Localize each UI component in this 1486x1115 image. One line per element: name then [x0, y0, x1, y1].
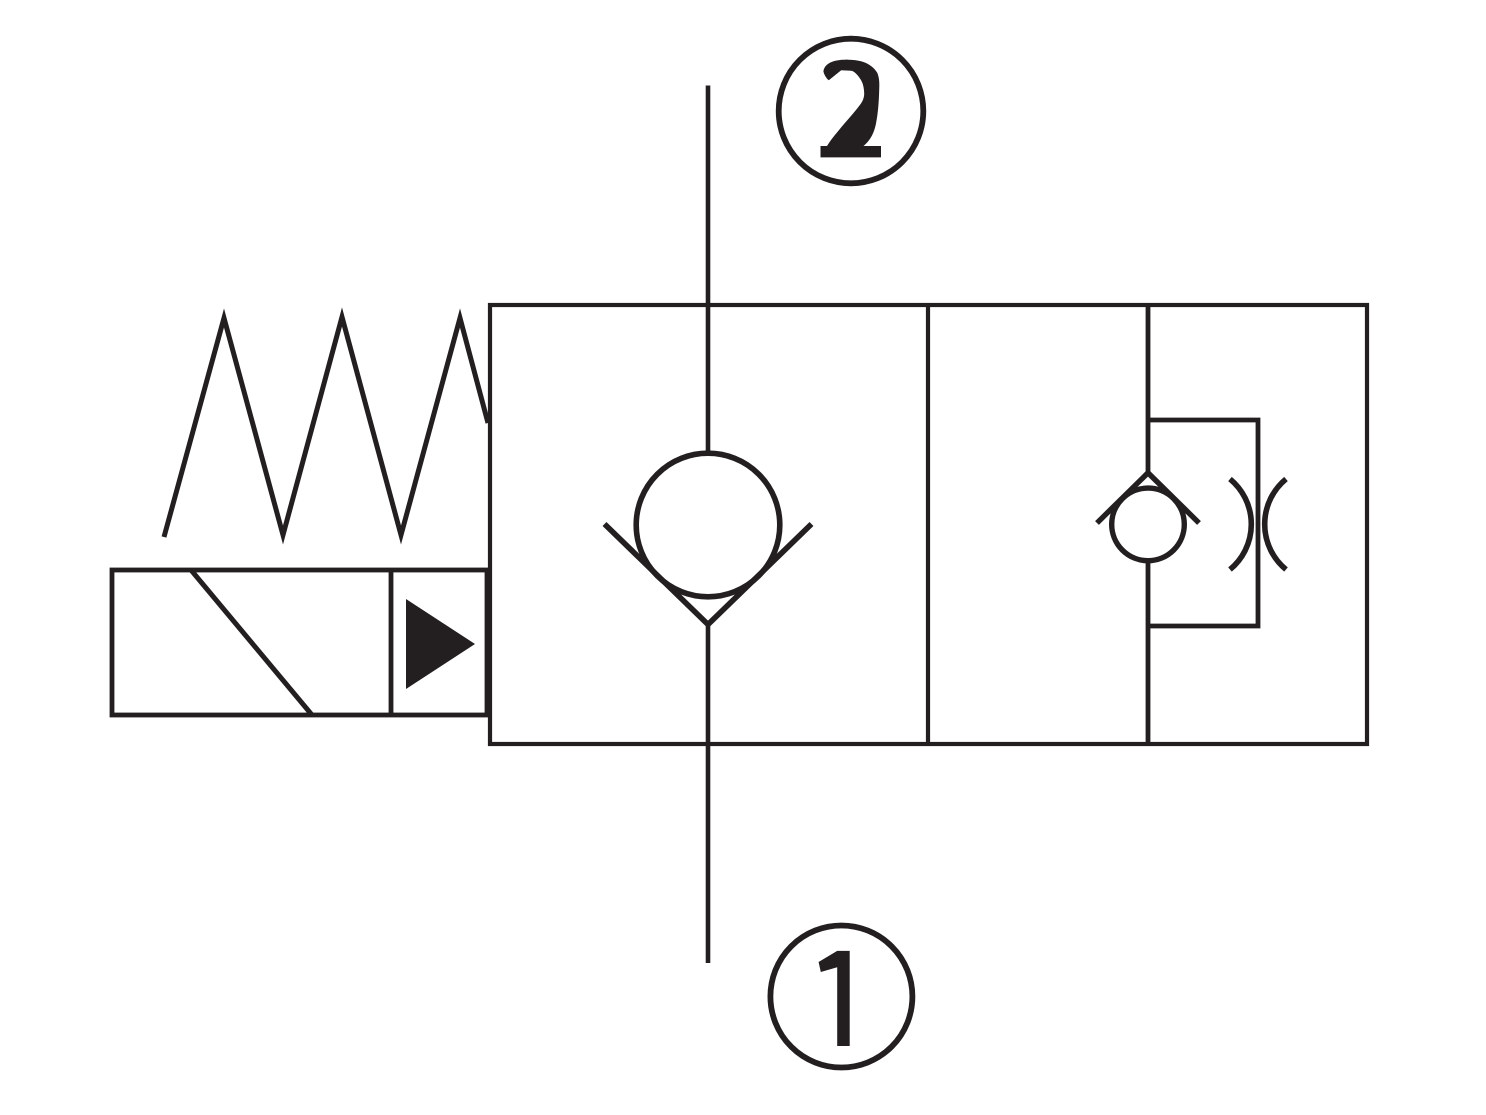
right position flow line (lower segment): [1146, 560, 1151, 744]
spring (return spring, left side): [164, 317, 488, 537]
port 2 label text: [821, 60, 882, 158]
envelope position divider: [926, 305, 930, 744]
bypass branch rectangle (orifice branch): [1148, 420, 1258, 626]
check valve poppet circle (left position): [636, 453, 780, 597]
solenoid actuator divider: [389, 570, 394, 715]
port 1 label text (digit drawn as path, no foot serif): [819, 951, 850, 1046]
port 1 label circle: [770, 926, 912, 1068]
wire: port 1 line: [706, 625, 711, 964]
pilot check valve seat V (right position): [1097, 473, 1199, 523]
solenoid box: [112, 570, 487, 715]
orifice left arc: [1230, 479, 1251, 570]
pilot check valve poppet circle (right position): [1112, 488, 1185, 561]
right position flow line (upper segment): [1146, 305, 1151, 473]
check valve seat V (left position): [605, 524, 812, 625]
solenoid arrow triangle: [406, 599, 475, 689]
wire: port 2 line: [706, 86, 711, 456]
valve envelope (two-position body): [490, 305, 1367, 744]
orifice right arc: [1265, 479, 1286, 570]
port 2 label circle: [779, 39, 924, 184]
solenoid diagonal: [191, 570, 312, 715]
